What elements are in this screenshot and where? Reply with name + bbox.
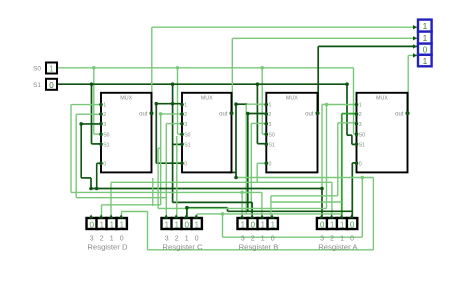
- wire out MUX3 riser: [317, 46, 319, 113]
- wire row dark RegC1 b: [228, 210, 353, 212]
- svg-text:Resgister B: Resgister B: [239, 242, 279, 251]
- svg-text:3: 3: [269, 122, 272, 128]
- wire RegB pin1 stub: [261, 192, 263, 217]
- junction S1-MUX1: [90, 82, 94, 86]
- wire row RegD1-MUX3pin0: [111, 181, 332, 183]
- wire S0 drop MUX4: [353, 68, 355, 134]
- wire MUX1 pin3 link drop: [90, 178, 92, 189]
- wire MUX2 pin1 row: [156, 103, 182, 105]
- svg-text:S0: S0: [103, 132, 109, 138]
- wire out MUX1 riser: [151, 27, 153, 113]
- wire MUX1 pin1 row: [71, 104, 101, 106]
- junction RegB pin3: [240, 191, 244, 195]
- wire rail2 under registers: [148, 249, 374, 251]
- wire MUX1 pin3 riser: [80, 124, 82, 178]
- wire MUX3 pin1 row pale part: [247, 103, 266, 105]
- junction MUX2 pin1: [171, 102, 175, 106]
- svg-text:S1: S1: [33, 82, 41, 89]
- wire row RegB0-MUX4pin3: [271, 195, 338, 197]
- wire S1 entry MUX1: [92, 143, 102, 145]
- svg-text:1: 1: [184, 103, 187, 109]
- svg-text:2: 2: [103, 112, 106, 118]
- junction S0-MUX3: [260, 66, 264, 70]
- wire MUX2 pin3 riser: [165, 124, 167, 198]
- input pin S0 (value 1): [33, 63, 57, 74]
- wire MUX2 pin0 feeder drop: [155, 104, 157, 164]
- wire S1 jog drop MUX4: [351, 135, 353, 144]
- wire rail1 riser right: [361, 178, 363, 238]
- svg-text:3: 3: [90, 235, 94, 242]
- svg-text:1: 1: [271, 220, 276, 229]
- wire MUX4 pin3 row: [338, 122, 357, 124]
- wire MUX3 pin2 row: [248, 113, 266, 115]
- svg-text:0: 0: [269, 161, 272, 167]
- svg-text:Resgister D: Resgister D: [87, 242, 128, 251]
- junction RegC pin1: [185, 206, 189, 210]
- output pin result bit 3 (value 1): [413, 20, 432, 32]
- svg-text:1: 1: [423, 56, 428, 66]
- wire row y177 long: [236, 177, 373, 179]
- wire RegA pin2 stub: [331, 182, 333, 217]
- multiplexer U4 (MUX block 4): [355, 93, 410, 173]
- svg-text:0: 0: [184, 161, 187, 167]
- input pin S1 (value 0): [33, 79, 57, 90]
- wire row dark RegD3: [91, 188, 322, 190]
- svg-text:1: 1: [359, 103, 362, 109]
- svg-text:3: 3: [103, 122, 106, 128]
- wire RegA pin3 drop: [321, 189, 323, 218]
- wire R7a left riser: [157, 148, 159, 208]
- svg-text:1: 1: [175, 220, 180, 229]
- wire R7a top stub: [158, 147, 161, 149]
- Register C pins (register C input pins, bits 3..0): [162, 214, 204, 251]
- svg-text:MUX: MUX: [120, 96, 132, 102]
- wire MUX4 pin2 row: [342, 113, 357, 115]
- wire S1 entry MUX3: [257, 143, 266, 145]
- wire row R7a MUX4pin1: [158, 207, 326, 209]
- wire S1 main row: [57, 83, 347, 85]
- junction S1-MUX4: [345, 82, 349, 86]
- svg-text:0: 0: [120, 235, 124, 242]
- junction S0-MUX2: [176, 66, 180, 70]
- wire row x322 top link: [322, 103, 327, 105]
- wire RegB pin2 stub: [251, 202, 253, 217]
- wire MUX2 pin2 riser: [160, 114, 162, 205]
- wire jog dark RegC1: [227, 208, 229, 212]
- wire S0 drop MUX3: [261, 68, 263, 134]
- svg-text:2: 2: [251, 235, 255, 242]
- wire rail1 riser left: [222, 214, 224, 237]
- wire MUX3 pin3 riser: [250, 123, 252, 213]
- junction MUX3 pin2: [246, 112, 250, 116]
- svg-text:S0: S0: [184, 132, 190, 138]
- svg-text:2: 2: [359, 112, 362, 118]
- svg-text:1: 1: [423, 21, 428, 31]
- svg-text:0: 0: [423, 44, 428, 54]
- wire MUX1 pin3 row: [81, 123, 101, 125]
- svg-text:2: 2: [175, 235, 179, 242]
- svg-text:1: 1: [185, 235, 189, 242]
- svg-text:0: 0: [350, 220, 355, 229]
- wire MUX3 pin3 row: [251, 122, 266, 124]
- wire S1 drop MUX1: [91, 84, 93, 144]
- wire RegD pin0 drop: [147, 212, 149, 250]
- wire S1 entry MUX2: [173, 143, 182, 145]
- wire out MUX4 row to pin R0: [408, 54, 417, 56]
- svg-text:S0: S0: [359, 132, 365, 138]
- wire row RegC0-MUX4pin2: [197, 213, 342, 215]
- wire S1 entry MUX4: [352, 143, 357, 145]
- svg-text:0: 0: [359, 161, 362, 167]
- svg-text:0: 0: [103, 161, 106, 167]
- output pin result bit 1 (value 0): [413, 44, 432, 55]
- svg-text:MUX: MUX: [286, 96, 298, 102]
- wire MUX4 pin0 riser: [351, 163, 353, 218]
- svg-text:S1: S1: [269, 142, 275, 148]
- wire S0 entry MUX3: [262, 133, 266, 135]
- svg-text:2: 2: [100, 235, 104, 242]
- wire row RegB0 branch to pin2riser: [271, 201, 342, 203]
- Register B pins (register B input pins, bits 3..0): [238, 214, 279, 251]
- wire RegB pin0 stub: [270, 196, 272, 218]
- svg-text:MUX: MUX: [376, 96, 388, 102]
- svg-text:0: 0: [185, 220, 190, 229]
- wire MUX3 pin0 row: [257, 162, 266, 164]
- svg-text:out: out: [219, 111, 228, 117]
- svg-text:1: 1: [165, 220, 170, 229]
- wire RegD pin0 stub: [121, 212, 123, 218]
- multiplexer U1 (MUX block 1): [99, 93, 153, 173]
- wire row RegB3-MUX1pin1: [71, 191, 262, 193]
- junction MUX2 pin1 corner: [155, 102, 159, 106]
- wire MUX1 pin2 riser: [75, 114, 77, 198]
- wire RegD pin1 stub: [110, 182, 112, 217]
- wire RegB pin3 stub: [241, 192, 243, 217]
- wire S0 main row: [57, 67, 354, 69]
- wire MUX1 pin1 riser: [70, 105, 72, 193]
- junction S0-MUX1: [92, 66, 96, 70]
- junction MUX3 pin1 bottom: [234, 176, 238, 180]
- wire row RegD2-MUX2pin2: [102, 204, 161, 206]
- wire S1 jog MUX4: [347, 134, 352, 136]
- svg-text:3: 3: [241, 235, 245, 242]
- wire S0 entry MUX1: [94, 133, 101, 135]
- svg-text:1: 1: [261, 220, 266, 229]
- svg-text:1: 1: [120, 220, 125, 229]
- svg-text:1: 1: [49, 65, 54, 74]
- wire MUX4 pin1 riser: [326, 105, 328, 209]
- svg-text:out: out: [305, 111, 314, 117]
- wire MUX2 pin0 row: [156, 162, 182, 164]
- svg-text:0: 0: [350, 235, 354, 242]
- wire row dark RegC1 a: [187, 207, 228, 209]
- wire MUX1 pin0 riser: [96, 163, 98, 188]
- junction MUX1 pin3: [79, 122, 83, 126]
- svg-text:out: out: [395, 111, 404, 117]
- wire S0 entry MUX2: [178, 133, 183, 135]
- svg-text:out: out: [139, 111, 148, 117]
- wire row RegC3-MUX1pin2: [76, 197, 166, 199]
- junction rail1 top: [221, 212, 225, 216]
- wire MUX4 pin1 row: [327, 104, 357, 106]
- output pin result bit 0 (value 1): [413, 53, 432, 66]
- svg-text:1: 1: [423, 33, 428, 43]
- junction RegD3 row b: [95, 187, 99, 191]
- svg-text:0: 0: [271, 235, 275, 242]
- wire RegC pin2 riser: [176, 136, 178, 218]
- svg-text:1: 1: [330, 220, 335, 229]
- wire S1 drop MUX3: [256, 84, 258, 144]
- svg-text:MUX: MUX: [201, 96, 213, 102]
- wire MUX4 pin0 row: [352, 162, 356, 164]
- svg-text:1: 1: [340, 220, 345, 229]
- wire MUX1 pin2 row: [76, 113, 101, 115]
- wire MUX4 pin2 riser: [341, 114, 343, 218]
- wire out MUX2 row to pin R2: [232, 37, 417, 39]
- wire S0 entry MUX4: [354, 133, 357, 135]
- junction MUX4 pin1: [325, 103, 329, 107]
- svg-text:1: 1: [241, 220, 246, 229]
- wire out MUX4 riser: [407, 55, 409, 113]
- svg-text:0: 0: [320, 220, 325, 229]
- Register D pins (register D input pins, bits 3..0): [87, 214, 129, 251]
- svg-text:0: 0: [195, 235, 199, 242]
- svg-text:1: 1: [100, 220, 105, 229]
- wire MUX3 pin0 riser: [256, 163, 258, 182]
- svg-text:1: 1: [261, 235, 265, 242]
- wire RegD pin0 row: [122, 211, 148, 213]
- junction S1-MUX2: [171, 82, 175, 86]
- wire S0 drop MUX2: [177, 68, 179, 134]
- svg-text:1: 1: [110, 220, 115, 229]
- wire MUX3 pin1 riser: [235, 104, 237, 177]
- svg-text:1: 1: [269, 103, 272, 109]
- junction RegA pin3 drop: [320, 187, 324, 191]
- svg-text:2: 2: [184, 112, 187, 118]
- wire MUX1 pin0 row: [97, 162, 101, 164]
- junction RegD3 row a: [89, 187, 93, 191]
- svg-text:3: 3: [320, 235, 324, 242]
- svg-text:0: 0: [90, 220, 95, 229]
- svg-text:2: 2: [269, 112, 272, 118]
- svg-text:S1: S1: [103, 142, 109, 148]
- svg-text:0: 0: [49, 81, 54, 90]
- svg-text:3: 3: [184, 122, 187, 128]
- svg-text:3: 3: [359, 122, 362, 128]
- svg-text:1: 1: [103, 103, 106, 109]
- wire MUX1 pin3 link row: [81, 177, 91, 179]
- svg-text:2: 2: [330, 235, 334, 242]
- junction MUX3 pin1 top: [234, 102, 238, 106]
- svg-text:1: 1: [110, 235, 114, 242]
- wire S0 drop MUX1: [93, 68, 95, 134]
- junction row y177: [361, 176, 365, 180]
- junction MUX2 pin2: [159, 112, 163, 116]
- wire MUX3 pin1 row dark part: [236, 103, 247, 105]
- multiplexer U3 (MUX block 3): [265, 93, 320, 173]
- wire MUX2 pin2 row: [161, 113, 182, 115]
- Register A pins (register A input pins, bits 3..0): [317, 214, 359, 251]
- wire RegC pin3 stub: [165, 198, 167, 218]
- wire out MUX3 row to pin R1: [318, 45, 417, 47]
- wire RegC pin1 stub: [186, 208, 188, 218]
- svg-text:S1: S1: [184, 142, 190, 148]
- multiplexer U2 (MUX block 2): [180, 93, 233, 173]
- svg-text:0: 0: [251, 220, 256, 229]
- svg-text:1: 1: [340, 235, 344, 242]
- wire out MUX1 row to pin R3: [152, 26, 417, 28]
- wire row dark MUX2S1-RegB2: [173, 201, 253, 203]
- wire rail1 under registers: [223, 236, 363, 238]
- wire RegD pin2 stub: [101, 205, 103, 218]
- wire MUX3 pin2 riser: [247, 114, 249, 212]
- wire stray drop near MUX1: [152, 178, 154, 206]
- wire rail2 riser right: [372, 178, 374, 250]
- svg-text:1: 1: [195, 220, 200, 229]
- wire S1 drop MUX2: [172, 84, 174, 202]
- svg-text:S1: S1: [359, 142, 365, 148]
- output pin result bit 2 (value 1): [413, 32, 432, 44]
- svg-text:Resgister A: Resgister A: [318, 242, 358, 251]
- wire MUX2 pin3 row: [166, 123, 182, 125]
- wire MUX4 pin3 riser: [337, 123, 339, 196]
- wire riser x322 pale: [321, 104, 323, 188]
- wire MUX2 bottom stub: [228, 171, 236, 173]
- wire out MUX2 riser: [231, 38, 233, 113]
- junction S1-MUX3: [256, 82, 260, 86]
- svg-text:S0: S0: [269, 132, 275, 138]
- svg-text:3: 3: [165, 235, 169, 242]
- wire RegC pin0 stub: [196, 214, 198, 218]
- svg-text:S0: S0: [33, 66, 41, 73]
- wire riser x246 joins row R8: [245, 104, 247, 214]
- wire S1 drop MUX4: [346, 84, 348, 135]
- svg-text:Resgister C: Resgister C: [162, 242, 203, 251]
